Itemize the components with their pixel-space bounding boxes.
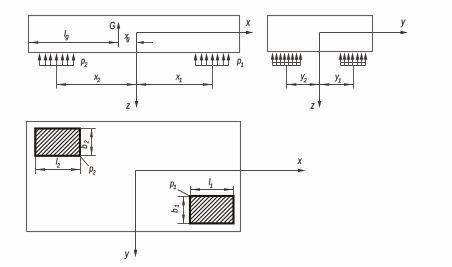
axis y (plan) [134,171,138,258]
label p1 [237,59,243,67]
plate outline plan view [27,122,241,232]
label l_g [64,30,68,40]
axis z (end view) [318,33,322,109]
distributed load p2 end view [271,52,303,88]
dimension l1 extension lines [191,186,234,195]
dimension l2 extension lines [36,157,81,174]
label b1 [171,205,179,213]
beam outline end view [268,16,373,52]
label p1 (plan) [170,182,176,189]
label x_g [125,34,130,42]
label G [110,22,115,29]
force G arrow [117,22,120,47]
label l2 [56,158,60,168]
dimension b1 extension lines [178,197,190,224]
load patch 1 (hatched) [190,196,234,223]
dimension y2 [287,83,319,86]
label x (axis) [246,20,250,25]
label y2 [300,74,306,82]
label z (end view) [311,103,315,108]
label x1 [176,75,182,82]
dimension x1 [137,83,212,86]
label p2 (plan) [89,167,96,175]
dimension b2 extension lines [81,129,96,156]
leader p1 [178,190,190,197]
dimension x2 [57,83,137,86]
load patch 2 (hatched) [35,129,80,156]
label z [126,103,130,108]
label x (plan) [298,159,302,164]
label y (plan) [125,252,130,260]
axis z [135,33,139,109]
beam outline side view [29,16,240,53]
dimension b2 [90,129,93,155]
label l1 [209,178,212,187]
dimension x_g (outside arrow) [137,41,153,44]
dimension b1 [182,197,185,223]
dimension l1 [191,188,234,191]
label p2 [81,59,88,67]
label x2 [94,75,100,82]
dimension l2 [36,168,81,171]
label y (axis) [401,20,406,28]
distributed load p1 end view [339,52,368,88]
dimension l_g [29,41,118,44]
label y1 [335,75,341,83]
distributed load p2 side view [38,53,76,89]
axis y [320,31,409,35]
axis x [137,31,254,35]
label b2 [81,141,89,149]
leader p2 [80,157,88,166]
axis x (plan) [136,169,306,173]
distributed load p1 side view [194,53,231,89]
dimension y1 [320,83,353,86]
